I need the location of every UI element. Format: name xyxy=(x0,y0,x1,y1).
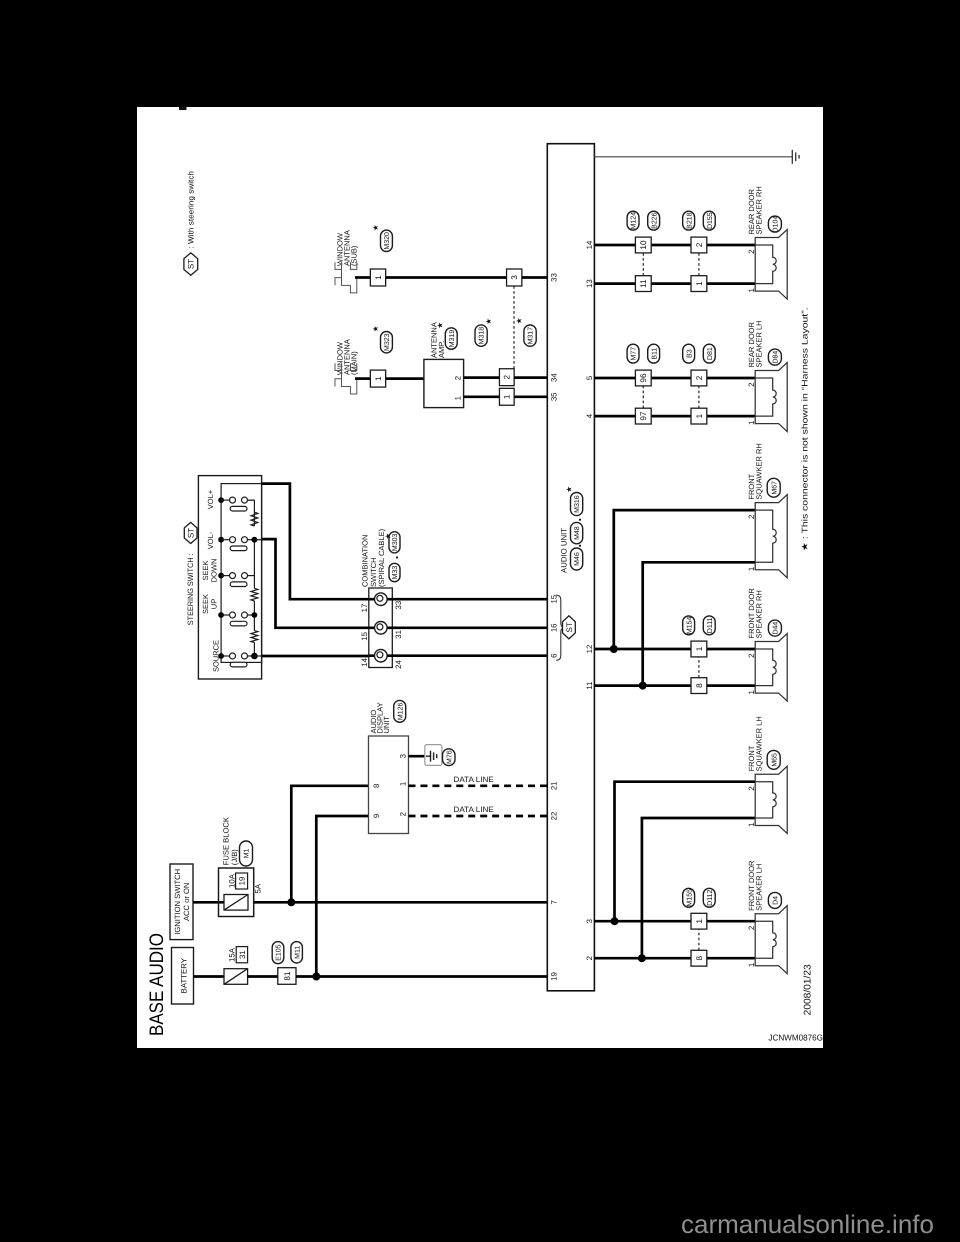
wire branch to front squawker RH + xyxy=(614,510,755,649)
svg-text:M46: M46 xyxy=(574,552,581,566)
svg-text:M323: M323 xyxy=(384,333,391,351)
connector 11 box xyxy=(635,276,651,292)
svg-text:17: 17 xyxy=(360,604,369,613)
dashed connector link xyxy=(642,386,644,408)
svg-text:10: 10 xyxy=(639,240,648,250)
svg-text:15: 15 xyxy=(360,631,369,640)
connector ref D4 xyxy=(768,892,781,908)
svg-text:1: 1 xyxy=(747,288,756,292)
wire W2 steering out to combination switch pin 15 xyxy=(262,539,369,628)
connector ref M33 xyxy=(389,563,400,581)
svg-text:★: ★ xyxy=(436,322,445,329)
svg-text:2: 2 xyxy=(747,383,756,387)
connector 2 box xyxy=(691,370,707,386)
DATA LINE dashed wire pin2 to audio unit pin 22 xyxy=(409,815,547,818)
svg-text:E105: E105 xyxy=(276,944,283,960)
wire audio pin 5 to rear door speaker LH + xyxy=(594,377,755,380)
svg-text:ST: ST xyxy=(565,622,574,632)
connector ref D84 xyxy=(768,349,781,365)
spiral cable coil 3 xyxy=(369,654,393,657)
svg-text:5A: 5A xyxy=(254,883,263,893)
svg-text:2: 2 xyxy=(585,956,594,960)
wire branch to display pin 8 xyxy=(291,786,368,903)
steering switch inner box xyxy=(221,484,262,663)
connector ref M154 xyxy=(683,616,695,635)
svg-text:SQUAWKER RH: SQUAWKER RH xyxy=(754,443,763,499)
connector ref M76 xyxy=(443,749,456,766)
svg-text:2008/01/23: 2008/01/23 xyxy=(802,964,813,1016)
connector 1 box xyxy=(691,276,707,292)
svg-text:(J/B): (J/B) xyxy=(230,849,239,866)
dashed link connector 2 to connector 3 xyxy=(513,286,515,369)
ground M76 symbol xyxy=(425,745,442,766)
connector 96 box xyxy=(635,370,651,386)
junction battery branch xyxy=(312,973,320,981)
svg-text:M124: M124 xyxy=(631,212,638,230)
wire audio pin 4 to rear door speaker LH - xyxy=(594,415,755,418)
svg-text:JCNWM0876GB: JCNWM0876GB xyxy=(768,1032,828,1042)
svg-text:2: 2 xyxy=(747,786,756,790)
junction ACC branch xyxy=(287,898,295,906)
connector ref M124 xyxy=(627,211,639,230)
svg-text:B3: B3 xyxy=(686,349,693,358)
dashed connector link xyxy=(698,657,700,678)
switch contacts at u=433 xyxy=(218,612,224,618)
dashed connector link xyxy=(698,386,700,408)
resistor R between VOL+ and VOL- xyxy=(251,512,258,526)
svg-text:STEERING SWITCH :: STEERING SWITCH : xyxy=(186,553,195,625)
wire fuse to connector 81 xyxy=(248,975,278,978)
svg-text:DOWN: DOWN xyxy=(210,559,219,583)
connector ref M323 with star xyxy=(381,332,393,353)
wire audio pin 11 to front door speaker RH - xyxy=(594,684,755,687)
wire audio pin 12 to front door speaker RH + xyxy=(594,648,755,651)
wire audio pin 14 to rear door speaker RH + xyxy=(594,244,755,247)
svg-text:B226: B226 xyxy=(651,212,658,228)
svg-text:★: ★ xyxy=(484,318,493,325)
connector 97 box xyxy=(635,408,651,424)
svg-text:1: 1 xyxy=(398,782,407,786)
connector ref D111 xyxy=(703,616,715,635)
svg-text:M77: M77 xyxy=(631,347,638,361)
svg-text:19: 19 xyxy=(549,972,558,981)
wire antenna MAIN to connector 1 xyxy=(355,377,370,380)
svg-text:31: 31 xyxy=(238,950,247,959)
connector 10 box xyxy=(635,237,651,253)
svg-text:M126: M126 xyxy=(397,702,404,720)
connector ref M1 xyxy=(240,841,253,866)
ignition switch box xyxy=(170,864,193,940)
svg-text:UP: UP xyxy=(210,599,219,609)
svg-text:1: 1 xyxy=(747,567,756,571)
audio unit box xyxy=(547,144,594,991)
connector ref M48 xyxy=(571,522,583,543)
ground wire from audio unit xyxy=(594,156,792,158)
svg-text:2: 2 xyxy=(453,376,462,380)
svg-text:1: 1 xyxy=(695,413,704,418)
stub SOURCE to box edge xyxy=(254,655,261,657)
window antenna SUB glyph xyxy=(335,262,342,269)
dashed connector link xyxy=(698,929,700,950)
svg-text:D112: D112 xyxy=(707,890,714,906)
svg-text:M317: M317 xyxy=(528,327,535,345)
svg-text:AMP.: AMP. xyxy=(437,341,446,358)
svg-text:AUDIO UNIT: AUDIO UNIT xyxy=(559,528,568,573)
front door speaker RH xyxy=(755,634,787,702)
svg-text:M76: M76 xyxy=(446,750,453,764)
connector 1 M318/M317 xyxy=(499,388,514,405)
fuse 15A xyxy=(224,969,248,985)
connector 81 E105-M11 xyxy=(278,968,296,985)
wire amp pin1 to connector 1 xyxy=(464,395,500,398)
ST hexagon inside audio unit xyxy=(563,616,576,639)
svg-text:3: 3 xyxy=(585,919,594,923)
svg-text:2: 2 xyxy=(695,375,704,380)
connector ref M67 xyxy=(767,478,780,497)
svg-text:2: 2 xyxy=(503,374,512,379)
ST bracket for pins 15/16/6 xyxy=(556,595,564,660)
svg-text:★: ★ xyxy=(565,486,574,493)
svg-text:M318: M318 xyxy=(479,327,486,345)
switch contacts at u=392 xyxy=(218,653,224,659)
combination switch box xyxy=(369,588,393,668)
svg-text:M155: M155 xyxy=(686,889,693,907)
svg-text:ACC or ON: ACC or ON xyxy=(182,883,191,921)
svg-text:33: 33 xyxy=(549,273,558,282)
svg-text:2: 2 xyxy=(747,654,756,658)
fuse block J/B box xyxy=(219,868,254,917)
connector ref E105 xyxy=(272,942,284,964)
svg-text:33: 33 xyxy=(394,601,403,610)
junction pin3 branch xyxy=(611,917,619,925)
svg-text:M154: M154 xyxy=(686,616,693,634)
wire ACC feed to audio unit pin 7 xyxy=(254,901,547,904)
switch contacts at u=508.3 xyxy=(218,537,224,543)
svg-text:6: 6 xyxy=(549,654,558,658)
svg-text:M1: M1 xyxy=(244,849,251,859)
connector 3 on sub antenna line xyxy=(507,269,522,286)
svg-text:8: 8 xyxy=(372,784,381,788)
connector ref D155 xyxy=(703,211,715,230)
wire coil 2 to audio unit xyxy=(392,626,547,629)
svg-text:7: 7 xyxy=(549,900,558,904)
svg-text:14: 14 xyxy=(360,657,369,666)
connector ref M318 with star xyxy=(475,325,487,346)
svg-text:UNIT: UNIT xyxy=(382,716,391,734)
white page xyxy=(137,107,823,1048)
wire coil 1 to audio unit xyxy=(392,598,547,601)
svg-text:VOL-: VOL- xyxy=(206,531,215,549)
svg-text:16: 16 xyxy=(549,623,558,632)
connector ref M77 xyxy=(627,344,639,363)
svg-text:2: 2 xyxy=(747,926,756,930)
svg-text:3: 3 xyxy=(398,754,407,758)
svg-text:13: 13 xyxy=(585,279,594,288)
svg-text:1: 1 xyxy=(747,963,756,967)
svg-text:1: 1 xyxy=(503,394,512,399)
antenna SUB connector 1 M320 xyxy=(370,269,385,286)
svg-text:M33: M33 xyxy=(392,566,399,580)
resistor R between SEEK UP and SOURCE xyxy=(251,631,258,643)
dashed connector link xyxy=(642,253,644,276)
connector ref M317 with star xyxy=(524,325,536,346)
svg-text:DATA LINE: DATA LINE xyxy=(454,805,494,814)
wire connector 2 to audio unit pin 34 xyxy=(514,376,547,379)
connector ref M319 with star xyxy=(445,328,457,349)
connector ref D81 xyxy=(703,344,715,363)
connector ref M303 with star xyxy=(389,532,400,553)
svg-text:SQUAWKER LH: SQUAWKER LH xyxy=(754,716,763,771)
wire box 3 to audio unit pin 33 xyxy=(522,276,547,279)
audio display unit box xyxy=(369,736,409,834)
svg-text:1: 1 xyxy=(747,823,756,827)
svg-text:SPEAKER RH: SPEAKER RH xyxy=(754,186,763,234)
switch contacts at u=547.9 xyxy=(218,497,224,503)
svg-text:ST: ST xyxy=(187,528,196,538)
svg-text:M303: M303 xyxy=(392,533,399,551)
battery box xyxy=(172,948,194,1005)
svg-text:1: 1 xyxy=(695,918,704,923)
antenna MAIN connector 1 M323 xyxy=(370,370,385,387)
connector ref D112 xyxy=(703,888,715,907)
connector 8 box xyxy=(691,678,707,694)
svg-text:14: 14 xyxy=(585,240,594,249)
svg-text:D4: D4 xyxy=(773,896,780,905)
svg-text:M11: M11 xyxy=(294,946,301,959)
junction pin11 branch xyxy=(639,682,647,690)
DATA LINE dashed wire pin1 to audio unit pin 21 xyxy=(409,784,547,787)
svg-text:8: 8 xyxy=(695,955,704,960)
svg-text:M320: M320 xyxy=(384,232,391,250)
svg-text:1: 1 xyxy=(374,376,383,381)
junction pin2 branch xyxy=(638,954,646,962)
svg-text:★: ★ xyxy=(371,224,380,231)
front door speaker LH xyxy=(755,906,787,974)
svg-text:1: 1 xyxy=(453,396,462,400)
svg-text:D44: D44 xyxy=(773,622,780,635)
svg-text:M316: M316 xyxy=(574,495,581,513)
svg-text:97: 97 xyxy=(639,411,648,421)
ST legend hexagon xyxy=(184,253,198,276)
resistor ladder chain wire xyxy=(253,643,255,657)
svg-text:ST: ST xyxy=(187,259,196,269)
svg-text:12: 12 xyxy=(585,645,594,654)
connector ref M320 with star xyxy=(381,230,393,251)
svg-text:VOL+: VOL+ xyxy=(206,489,215,509)
svg-text:SPEAKER RH: SPEAKER RH xyxy=(754,590,763,638)
svg-text:22: 22 xyxy=(549,812,558,821)
svg-text:D81: D81 xyxy=(707,347,714,360)
wire antenna SUB to connector 1 xyxy=(355,276,370,279)
svg-text:M48: M48 xyxy=(574,526,581,540)
svg-text:31: 31 xyxy=(394,630,403,639)
wire antenna SUB to box 3 xyxy=(386,276,507,279)
wire branch to front squawker LH - xyxy=(642,818,755,958)
connector ref M155 xyxy=(683,888,695,907)
svg-text:1: 1 xyxy=(747,421,756,425)
svg-text:34: 34 xyxy=(549,373,558,382)
svg-text:19: 19 xyxy=(238,877,247,886)
dashed connector link xyxy=(698,253,700,276)
window antenna MAIN glyph xyxy=(335,363,342,370)
stub VOL- to box edge xyxy=(254,539,261,541)
svg-text:: With steering switch: : With steering switch xyxy=(186,171,195,249)
junction pin12 branch xyxy=(610,645,618,653)
page top-left mark xyxy=(179,107,187,110)
wire branch to front squawker LH + xyxy=(615,782,756,922)
wire W3 steering out to combination switch pin 14 xyxy=(262,655,369,658)
svg-text:35: 35 xyxy=(549,392,558,401)
resistor R between SEEK DOWN and SEEK UP xyxy=(251,588,258,601)
svg-text:M319: M319 xyxy=(449,330,456,348)
connector ref B11 xyxy=(648,344,660,363)
wire antenna MAIN to antenna amp xyxy=(386,377,424,380)
svg-text:1: 1 xyxy=(747,690,756,694)
wire branch to front squawker RH - xyxy=(643,562,756,685)
wire coil 3 to audio unit xyxy=(392,654,547,657)
svg-text:15A: 15A xyxy=(227,947,236,962)
wire audio pin 13 to rear door speaker RH - xyxy=(594,282,755,285)
svg-text:81: 81 xyxy=(283,971,292,981)
connector ref M46 xyxy=(571,548,583,570)
svg-text:5: 5 xyxy=(585,375,594,380)
svg-text:★: ★ xyxy=(371,325,380,332)
svg-text:M65: M65 xyxy=(771,753,778,767)
ST hexagon at steering switch xyxy=(184,522,197,543)
svg-text:★: ★ xyxy=(514,317,523,324)
svg-text:4: 4 xyxy=(585,413,594,418)
connector ref B218 xyxy=(683,211,695,230)
fuse 10A xyxy=(224,895,248,911)
spiral cable coil 2 xyxy=(369,626,393,629)
svg-text:2: 2 xyxy=(398,812,407,816)
svg-text:9: 9 xyxy=(372,814,381,818)
svg-text:21: 21 xyxy=(549,781,558,790)
wire W1 steering out to combination switch pin 17 xyxy=(262,484,369,600)
connector ref M126 xyxy=(394,700,406,722)
wire audio pin 3 to front door speaker LH + xyxy=(594,920,755,923)
wire ignition to fuse block xyxy=(193,901,224,904)
wire connector 1 to audio unit pin 35 xyxy=(514,395,547,398)
wire display pin 3 to ground M76 xyxy=(409,755,427,758)
connector 2 M318/M317 xyxy=(499,369,514,386)
svg-text:★ : This connector is not show: ★ : This connector is not shown in “Harn… xyxy=(799,307,809,551)
svg-text:DATA LINE: DATA LINE xyxy=(454,775,494,784)
ground symbol xyxy=(791,156,793,158)
wire amp pin2 to connector 2 xyxy=(464,376,500,379)
rear door speaker RH xyxy=(755,230,787,300)
svg-text:1: 1 xyxy=(374,275,383,280)
svg-text:SPEAKER LH: SPEAKER LH xyxy=(754,320,763,367)
svg-text:SPEAKER LH: SPEAKER LH xyxy=(754,864,763,911)
svg-text:11: 11 xyxy=(585,682,594,690)
connector 1 box xyxy=(691,641,707,657)
svg-text:★: ★ xyxy=(384,532,393,539)
antenna amp box xyxy=(424,359,464,407)
svg-text:M67: M67 xyxy=(771,481,778,495)
connector ref D104 xyxy=(768,216,781,232)
svg-text:96: 96 xyxy=(639,373,648,383)
svg-text:D84: D84 xyxy=(773,351,780,364)
wire battery to fuse xyxy=(194,975,225,978)
svg-text:2: 2 xyxy=(695,242,704,247)
svg-text:8: 8 xyxy=(695,683,704,688)
rear door speaker LH xyxy=(755,363,787,432)
connector 1 box xyxy=(691,913,707,929)
connector 1 box xyxy=(691,408,707,424)
chain junction dots xyxy=(252,537,258,543)
front squawker RH xyxy=(755,495,787,578)
switch contacts at u=472.4 xyxy=(218,573,224,579)
svg-text:carmanualsonline.info: carmanualsonline.info xyxy=(681,1211,934,1239)
svg-text:D104: D104 xyxy=(773,216,780,233)
svg-text:2: 2 xyxy=(747,250,756,254)
wire branch to display pin 9 xyxy=(316,816,368,977)
svg-text:B218: B218 xyxy=(686,212,693,228)
svg-text:BASE AUDIO: BASE AUDIO xyxy=(146,933,168,1036)
spiral cable coil 1 xyxy=(369,598,393,601)
wire audio pin 2 to front door speaker LH - xyxy=(594,957,755,960)
svg-text:3: 3 xyxy=(510,275,519,280)
figure code JCNWM0876GB xyxy=(768,1032,828,1042)
svg-text:11: 11 xyxy=(639,279,648,288)
wire battery feed to audio unit pin 19 xyxy=(296,975,547,978)
svg-text:(MAIN): (MAIN) xyxy=(350,351,359,375)
connector ref M11 xyxy=(291,942,303,963)
connector ref B226 xyxy=(648,211,660,230)
connector ref D44 xyxy=(768,620,781,636)
svg-text:D111: D111 xyxy=(707,617,714,633)
connector ref M65 xyxy=(767,750,780,769)
connector 8 box xyxy=(691,950,707,966)
svg-text:2: 2 xyxy=(747,515,756,519)
connector ref M316 with star xyxy=(571,493,583,516)
connector ref B3 xyxy=(683,344,695,363)
svg-text:B11: B11 xyxy=(651,348,658,360)
steering switch outer box xyxy=(198,476,261,679)
svg-text:1: 1 xyxy=(695,646,704,651)
svg-text:24: 24 xyxy=(394,660,403,669)
svg-text:1: 1 xyxy=(695,281,704,286)
svg-text:D155: D155 xyxy=(707,212,714,229)
front squawker LH xyxy=(755,766,787,833)
svg-text:BATTERY: BATTERY xyxy=(180,957,189,993)
connector 2 box xyxy=(691,237,707,253)
